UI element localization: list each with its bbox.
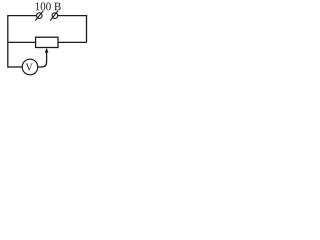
terminal right	[50, 11, 58, 21]
wire right vertical	[86, 15, 88, 42]
wire middle right	[58, 41, 87, 43]
wire voltmeter to wiper	[38, 52, 47, 67]
wire top-right	[58, 15, 87, 17]
terminal left	[35, 11, 43, 21]
wire middle left	[8, 41, 36, 43]
wiper arrow	[45, 48, 49, 53]
wire top-left	[8, 15, 37, 17]
label 100 V	[36, 2, 61, 10]
resistor R (potentiometer body)	[36, 37, 58, 47]
wire left vertical	[7, 15, 9, 68]
voltmeter V	[22, 59, 38, 75]
wire bottom to voltmeter	[8, 66, 23, 68]
